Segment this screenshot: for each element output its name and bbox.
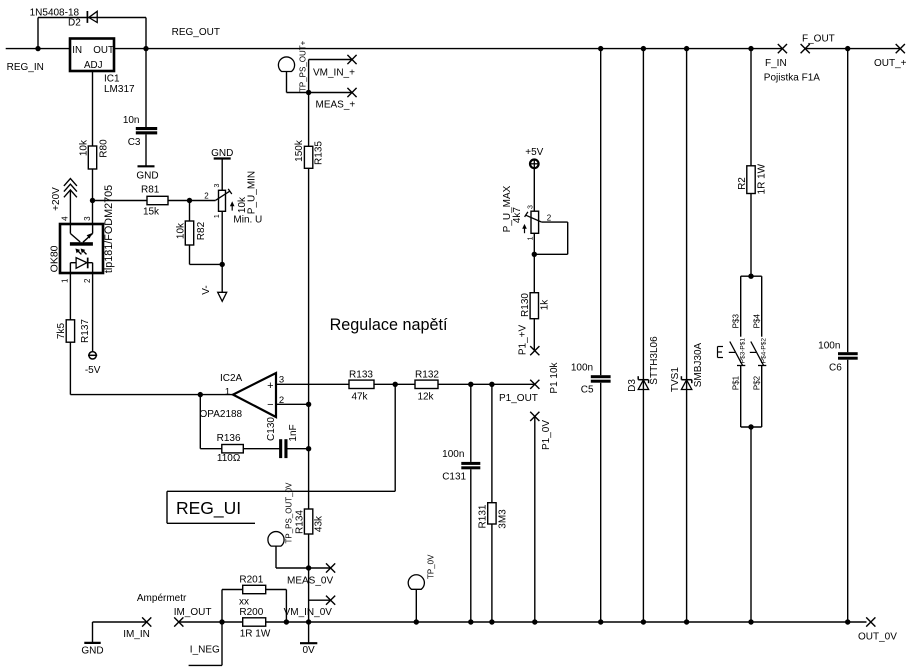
wire R80 to node (92, 169, 94, 201)
wire VM_IN_0V stub (309, 599, 331, 601)
junction MEAS node (306, 90, 311, 95)
capacitor C6 100n (838, 352, 858, 355)
svg-text:P$2: P$2 (753, 375, 762, 390)
svg-text:OUT_0V: OUT_0V (858, 632, 897, 643)
svg-text:100n: 100n (571, 363, 593, 374)
svg-text:43k: 43k (314, 515, 325, 532)
junction at OUT node (143, 46, 148, 51)
svg-text:3M3: 3M3 (498, 509, 509, 529)
junction 0V ground node (306, 619, 311, 624)
svg-text:2: 2 (83, 278, 92, 283)
svg-text:C130: C130 (266, 417, 277, 441)
svg-text:3: 3 (528, 205, 535, 209)
svg-text:D2: D2 (68, 17, 81, 28)
svg-text:150k: 150k (294, 139, 305, 162)
wire R81 to pot wiper (168, 200, 216, 202)
ground 0V symbol (308, 622, 310, 643)
resistor R81 15k (147, 196, 168, 204)
svg-text:+20V: +20V (51, 187, 62, 211)
junction MEAS_0V node (306, 565, 311, 570)
wire R136 to C130 (243, 448, 280, 450)
svg-text:VM_IN_0V: VM_IN_0V (284, 607, 333, 618)
wire R82 to pot bottom (190, 263, 223, 265)
svg-text:12k: 12k (417, 391, 434, 402)
junction TP_0V (414, 619, 419, 624)
svg-text:OPA2188: OPA2188 (200, 409, 243, 420)
junction C131 bottom (468, 619, 473, 624)
wire opto pin3 up (92, 201, 94, 225)
capacitor C3 10n (145, 49, 147, 127)
junction I_NEG node (219, 619, 224, 624)
pot adjust arrow (231, 204, 233, 211)
resistor R82 10k (189, 201, 191, 222)
junction C5 bottom (598, 619, 603, 624)
wire node to R81 (93, 200, 148, 202)
node P1_0V X (530, 412, 539, 421)
junction pin2/vertical (306, 402, 311, 407)
svg-text:TP_PS_OUT+: TP_PS_OUT+ (298, 40, 307, 92)
junction R131 tap (489, 382, 494, 387)
node IM_OUT X (174, 617, 183, 626)
wire bottom bus (179, 621, 243, 623)
svg-text:TVS1: TVS1 (670, 367, 681, 392)
wire ADJ pin down (92, 71, 94, 146)
junction C5 top (598, 46, 603, 51)
svg-text:1: 1 (528, 236, 535, 240)
svg-text:R80: R80 (99, 139, 110, 158)
wire opamp output to node (200, 394, 233, 396)
switch actuator E (717, 347, 719, 358)
svg-text:Min. U: Min. U (233, 214, 262, 225)
junction switch top (748, 274, 753, 279)
capacitor C131 100n (461, 462, 480, 465)
svg-text:TP_PS_OUT_0V: TP_PS_OUT_0V (284, 482, 293, 544)
tvs diode TVS1 SMBJ30A (681, 380, 691, 390)
svg-text:R2: R2 (737, 177, 748, 190)
wire opto pin2 down (92, 273, 94, 352)
svg-text:OK80: OK80 (48, 245, 60, 272)
svg-text:SMBJ30A: SMBJ30A (693, 342, 704, 387)
ground GND below C3 (145, 134, 147, 166)
node P1_+V X (530, 346, 539, 355)
wire R2 column top (750, 49, 752, 166)
svg-text:10n: 10n (123, 115, 140, 126)
svg-text:P$3-P$1: P$3-P$1 (739, 338, 746, 364)
wire REG_UI net (167, 490, 395, 492)
wire R135 down long (308, 168, 310, 404)
wire opto pin1 down (69, 273, 71, 320)
svg-text:P$3: P$3 (731, 314, 740, 329)
svg-text:Ampérmetr: Ampérmetr (137, 593, 187, 604)
wire +5V to pot (533, 168, 535, 211)
node OUT_+ X (896, 44, 905, 53)
resistor R130 1k (530, 293, 538, 319)
svg-text:10k: 10k (176, 222, 187, 239)
svg-text:IN: IN (72, 45, 82, 56)
junction D3 bottom (641, 619, 646, 624)
svg-text:MEAS_0V: MEAS_0V (287, 576, 333, 587)
svg-text:+: + (267, 380, 273, 392)
wire vertical segment (308, 404, 310, 509)
svg-text:1nF: 1nF (288, 424, 299, 441)
junction R80/R81/opto pin3 (90, 198, 95, 203)
svg-text:LM317: LM317 (104, 84, 135, 95)
wire switch to bus (750, 427, 752, 622)
svg-text:GND: GND (211, 148, 233, 159)
svg-text:R133: R133 (349, 370, 373, 381)
wire pot pin1 down (533, 233, 535, 292)
junction TVS1 top (684, 46, 689, 51)
resistor R135 150k (304, 146, 312, 168)
svg-text:100n: 100n (818, 340, 840, 351)
svg-text:IM_OUT: IM_OUT (174, 607, 212, 618)
svg-text:R132: R132 (415, 370, 439, 381)
svg-text:-5V: -5V (85, 365, 101, 376)
wire TVS1 column (686, 49, 688, 622)
wire REG_IN/REG_OUT top bus (6, 48, 70, 50)
switch bottom connector (741, 426, 762, 428)
resistor R136 110ohm (222, 445, 244, 453)
svg-text:1: 1 (225, 387, 230, 398)
svg-text:D3: D3 (627, 379, 638, 392)
diode D3 STTH3L06 (638, 380, 648, 390)
junction C131 tap (468, 382, 473, 387)
wire pot pin1 down (221, 211, 223, 292)
svg-text:1: 1 (61, 278, 70, 283)
testpoint TP_0V (408, 575, 424, 590)
svg-text:P1_0V: P1_0V (541, 420, 552, 450)
junction feedback tap (393, 382, 398, 387)
wire R131 column (491, 384, 493, 502)
supply V- arrow (218, 292, 227, 301)
node OUT_0V X (866, 617, 875, 626)
svg-text:1R 1W: 1R 1W (757, 163, 768, 194)
svg-text:P$4: P$4 (753, 314, 762, 329)
svg-text:+5V: +5V (525, 147, 543, 158)
wire opamp pin2 to vertical (276, 403, 309, 405)
svg-text:2: 2 (204, 192, 209, 201)
svg-text:R130: R130 (520, 293, 531, 317)
svg-text:Regulace napětí: Regulace napětí (330, 316, 448, 334)
junction C6 top (845, 46, 850, 51)
wire opamp pin3 right (276, 383, 349, 385)
junction switch bottom (748, 424, 753, 429)
wire R130 to P1_+V (533, 319, 535, 351)
svg-text:0V: 0V (302, 645, 315, 656)
testpoint TP_PS_OUT_0V (268, 532, 284, 547)
junction switch bottom bus (748, 619, 753, 624)
op-amp IC2A OPA2188 (233, 373, 276, 417)
svg-text:OUT: OUT (93, 45, 114, 56)
junction TVS1 bottom (684, 619, 689, 624)
wire D3 column (642, 49, 644, 622)
feedback wire down (199, 395, 201, 449)
svg-text:P$1: P$1 (731, 375, 740, 390)
wire R133 to R132 (374, 383, 415, 385)
svg-text:1: 1 (214, 214, 221, 218)
svg-text:4: 4 (61, 216, 70, 221)
svg-text:2: 2 (547, 214, 552, 223)
switch contact P$4-P$2 (761, 276, 763, 337)
node P1_OUT X (530, 380, 539, 389)
svg-text:R82: R82 (196, 221, 207, 240)
junction C6 bottom (845, 619, 850, 624)
svg-text:R137: R137 (80, 319, 91, 343)
resistor R201 xx (221, 590, 223, 623)
svg-text:P1 10k: P1 10k (549, 361, 560, 393)
svg-text:REG_IN: REG_IN (7, 62, 44, 73)
resistor R137 7k5 (66, 320, 74, 342)
svg-text:R134: R134 (295, 510, 306, 534)
node MEAS_+ X (347, 88, 356, 97)
node VM_IN_+ X (347, 55, 356, 64)
svg-text:V-: V- (201, 285, 212, 294)
wire D2 bypass loop (37, 18, 39, 49)
node IM_IN X (142, 617, 151, 626)
svg-text:Pojistka F1A: Pojistka F1A (764, 73, 820, 84)
svg-text:MEAS_+: MEAS_+ (316, 100, 356, 111)
label I_NEG flag (221, 622, 223, 665)
wire R132 to P1_OUT (438, 383, 535, 385)
svg-text:STTH3L06: STTH3L06 (649, 336, 660, 385)
svg-text:10k: 10k (79, 139, 90, 156)
svg-text:I_NEG: I_NEG (190, 645, 220, 656)
resistor R2 1R 1W (747, 166, 755, 194)
opto LED (76, 258, 87, 269)
wire C130 to vertical (288, 448, 309, 450)
svg-text:tlp181/FODM2705: tlp181/FODM2705 (103, 185, 115, 273)
svg-text:−: − (267, 399, 273, 411)
svg-text:R201: R201 (239, 575, 263, 586)
wire P1_0V down to bus (534, 416, 536, 622)
svg-text:OUT_+: OUT_+ (874, 58, 907, 69)
wire R2 to switch (750, 194, 752, 277)
supply -5V (89, 352, 96, 359)
svg-text:P1_OUT: P1_OUT (499, 393, 538, 404)
svg-text:R131: R131 (478, 504, 489, 528)
junction at REG_IN node (35, 46, 40, 51)
svg-text:R81: R81 (141, 184, 160, 195)
svg-text:100n: 100n (442, 449, 464, 460)
svg-text:R135: R135 (314, 141, 325, 165)
svg-text:R200: R200 (239, 607, 263, 618)
svg-text:P$4-P$2: P$4-P$2 (760, 338, 767, 364)
testpoint TP_PS_OUT+ (278, 57, 294, 72)
svg-text:GND: GND (136, 171, 158, 182)
junction R2 top (748, 46, 753, 51)
supply +20V arrow (64, 179, 77, 186)
svg-text:REG_UI: REG_UI (176, 498, 241, 519)
wire C5 column (600, 49, 602, 376)
svg-text:GND: GND (81, 645, 103, 656)
svg-text:P1_+V: P1_+V (518, 325, 529, 356)
svg-text:REG_OUT: REG_OUT (172, 27, 220, 38)
svg-text:15k: 15k (143, 207, 160, 218)
junction P1_0V bottom (532, 619, 537, 624)
switch contact P$3-P$1 (740, 276, 742, 337)
svg-text:R136: R136 (217, 433, 241, 444)
regulator IC1 LM317 box (70, 39, 114, 72)
svg-text:ADJ: ADJ (84, 60, 103, 71)
wire tap down to REG_UI wire (394, 384, 396, 491)
junction opamp input node (198, 392, 203, 397)
wire MEAS_+ stub (309, 92, 352, 94)
node MEAS_0V X (326, 563, 335, 572)
label REG_UI flag (166, 491, 168, 523)
svg-text:1R 1W: 1R 1W (240, 629, 271, 640)
capacitor C130 1nF (279, 439, 282, 458)
wire R137 to opamp input (69, 342, 71, 394)
switch S1 top connector (741, 275, 762, 277)
node F_OUT X (801, 44, 810, 53)
svg-text:3: 3 (83, 216, 92, 221)
resistor R200 1R 1W (243, 618, 266, 626)
svg-text:C131: C131 (442, 472, 466, 483)
opto phototransistor (69, 224, 71, 234)
junction R81/R82 (187, 198, 192, 203)
optocoupler OK80 box (60, 224, 103, 273)
svg-text:47k: 47k (351, 391, 368, 402)
wire C6 column (847, 49, 849, 353)
svg-text:3: 3 (214, 183, 221, 187)
svg-text:C3: C3 (128, 137, 141, 148)
resistor R133 47k (349, 380, 374, 388)
svg-text:P_U_MIN: P_U_MIN (246, 171, 257, 214)
diode D2 1N5408-18 (89, 11, 97, 22)
junction D3 top (641, 46, 646, 51)
svg-text:C5: C5 (581, 385, 594, 396)
node F_IN X (778, 44, 787, 53)
wire down to VM_IN_0V (308, 568, 310, 622)
svg-text:TP_0V: TP_0V (426, 554, 435, 579)
svg-text:VM_IN_+: VM_IN_+ (313, 68, 355, 79)
junction R201 right (284, 619, 289, 624)
wire pot wiper loop (542, 221, 568, 223)
svg-text:1k: 1k (539, 299, 550, 311)
opto light arrows (77, 250, 81, 254)
svg-text:IC2A: IC2A (220, 373, 243, 384)
capacitor C5 100n (591, 375, 611, 378)
wire C131 column (470, 384, 472, 462)
svg-text:IM_IN: IM_IN (123, 629, 150, 640)
junction pot bottom (220, 262, 225, 267)
resistor R132 12k (415, 380, 438, 388)
svg-text:110Ω: 110Ω (217, 453, 241, 464)
resistor R134 43k (304, 509, 312, 534)
junction C130/vertical (306, 446, 311, 451)
resistor R131 3M3 (488, 503, 496, 524)
svg-text:F_IN: F_IN (765, 58, 787, 69)
junction R131 bottom (489, 619, 494, 624)
wire down to R135 (308, 93, 310, 147)
svg-text:IC1: IC1 (104, 74, 120, 85)
wire VM_IN_+ stub (308, 60, 310, 93)
svg-text:C6: C6 (829, 363, 842, 374)
wire MEAS_0V stub (309, 567, 331, 569)
potentiometer P_U_MIN 10k (219, 190, 226, 211)
potentiometer P_U_MAX 4k7 (531, 211, 539, 233)
junction wiper/pin1 (532, 252, 537, 257)
svg-text:7k5: 7k5 (56, 323, 67, 340)
wire IM_IN stub (93, 621, 147, 623)
wire F_OUT to OUT_+ (805, 48, 900, 50)
resistor R80 10k (88, 146, 96, 169)
svg-text:F_OUT: F_OUT (802, 33, 835, 44)
wire R134 down (308, 534, 310, 568)
ground GND bottom left (92, 622, 94, 643)
pot adjust arrow (524, 226, 526, 233)
svg-text:4k7: 4k7 (512, 207, 523, 224)
node VM_IN_0V X (326, 596, 335, 605)
